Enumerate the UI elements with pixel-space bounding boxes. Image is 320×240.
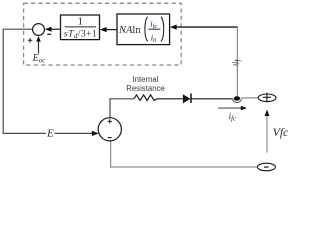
svg-text:ifc: ifc: [229, 111, 236, 122]
wire: junction to plus terminal: [242, 97, 259, 99]
wire: transfer block to summer with arrowhead: [46, 28, 61, 30]
wire: voltage source top stub: [110, 99, 134, 118]
svg-text:Eoc: Eoc: [32, 53, 47, 65]
svg-text:E: E: [46, 127, 54, 139]
svg-text:ifc: ifc: [231, 59, 242, 68]
wire hop at junction: [233, 99, 242, 103]
dashed subsystem box: [24, 3, 182, 65]
junction node dot: [234, 96, 241, 100]
minus sign at summer: [47, 33, 51, 35]
Vfc measurement arrow: [266, 114, 268, 153]
minus output terminal: [257, 163, 275, 171]
plus sign at summer: [28, 38, 32, 42]
svg-text:sTd/3+1: sTd/3+1: [64, 30, 97, 40]
wire: ifc feedback top arrow into NAln: [175, 26, 238, 28]
diode: [183, 94, 191, 103]
transfer function block 1/(sTd/3+1): [61, 15, 100, 40]
resistor zigzag: [134, 95, 157, 101]
svg-text:Resistance: Resistance: [126, 84, 165, 93]
svg-text:1: 1: [78, 16, 84, 28]
plus sign in source: [108, 119, 112, 123]
wire: resistor to diode: [157, 98, 183, 100]
arrowhead into voltage source: [92, 131, 99, 136]
wire: ifc vertical measurement line: [236, 27, 238, 96]
wire: bottom return: [111, 141, 258, 167]
wire: summer output left and down to E: [3, 29, 92, 133]
minus sign in source: [108, 137, 112, 139]
svg-text:Internal: Internal: [132, 75, 158, 84]
svg-text:NAln: NAln: [118, 25, 141, 36]
plus output terminal: [258, 94, 276, 102]
wire: diode to junction: [192, 98, 233, 100]
wire: NAln block to transfer block with arrowhead: [106, 29, 118, 31]
svg-text:Vfc: Vfc: [273, 127, 288, 139]
controlled voltage source: [98, 118, 121, 141]
label E: [46, 128, 55, 139]
wire Eoc arrow up into summer: [38, 40, 40, 54]
ifc current arrow: [218, 107, 243, 109]
NAln block: [117, 14, 170, 45]
summing junction: [33, 24, 45, 36]
